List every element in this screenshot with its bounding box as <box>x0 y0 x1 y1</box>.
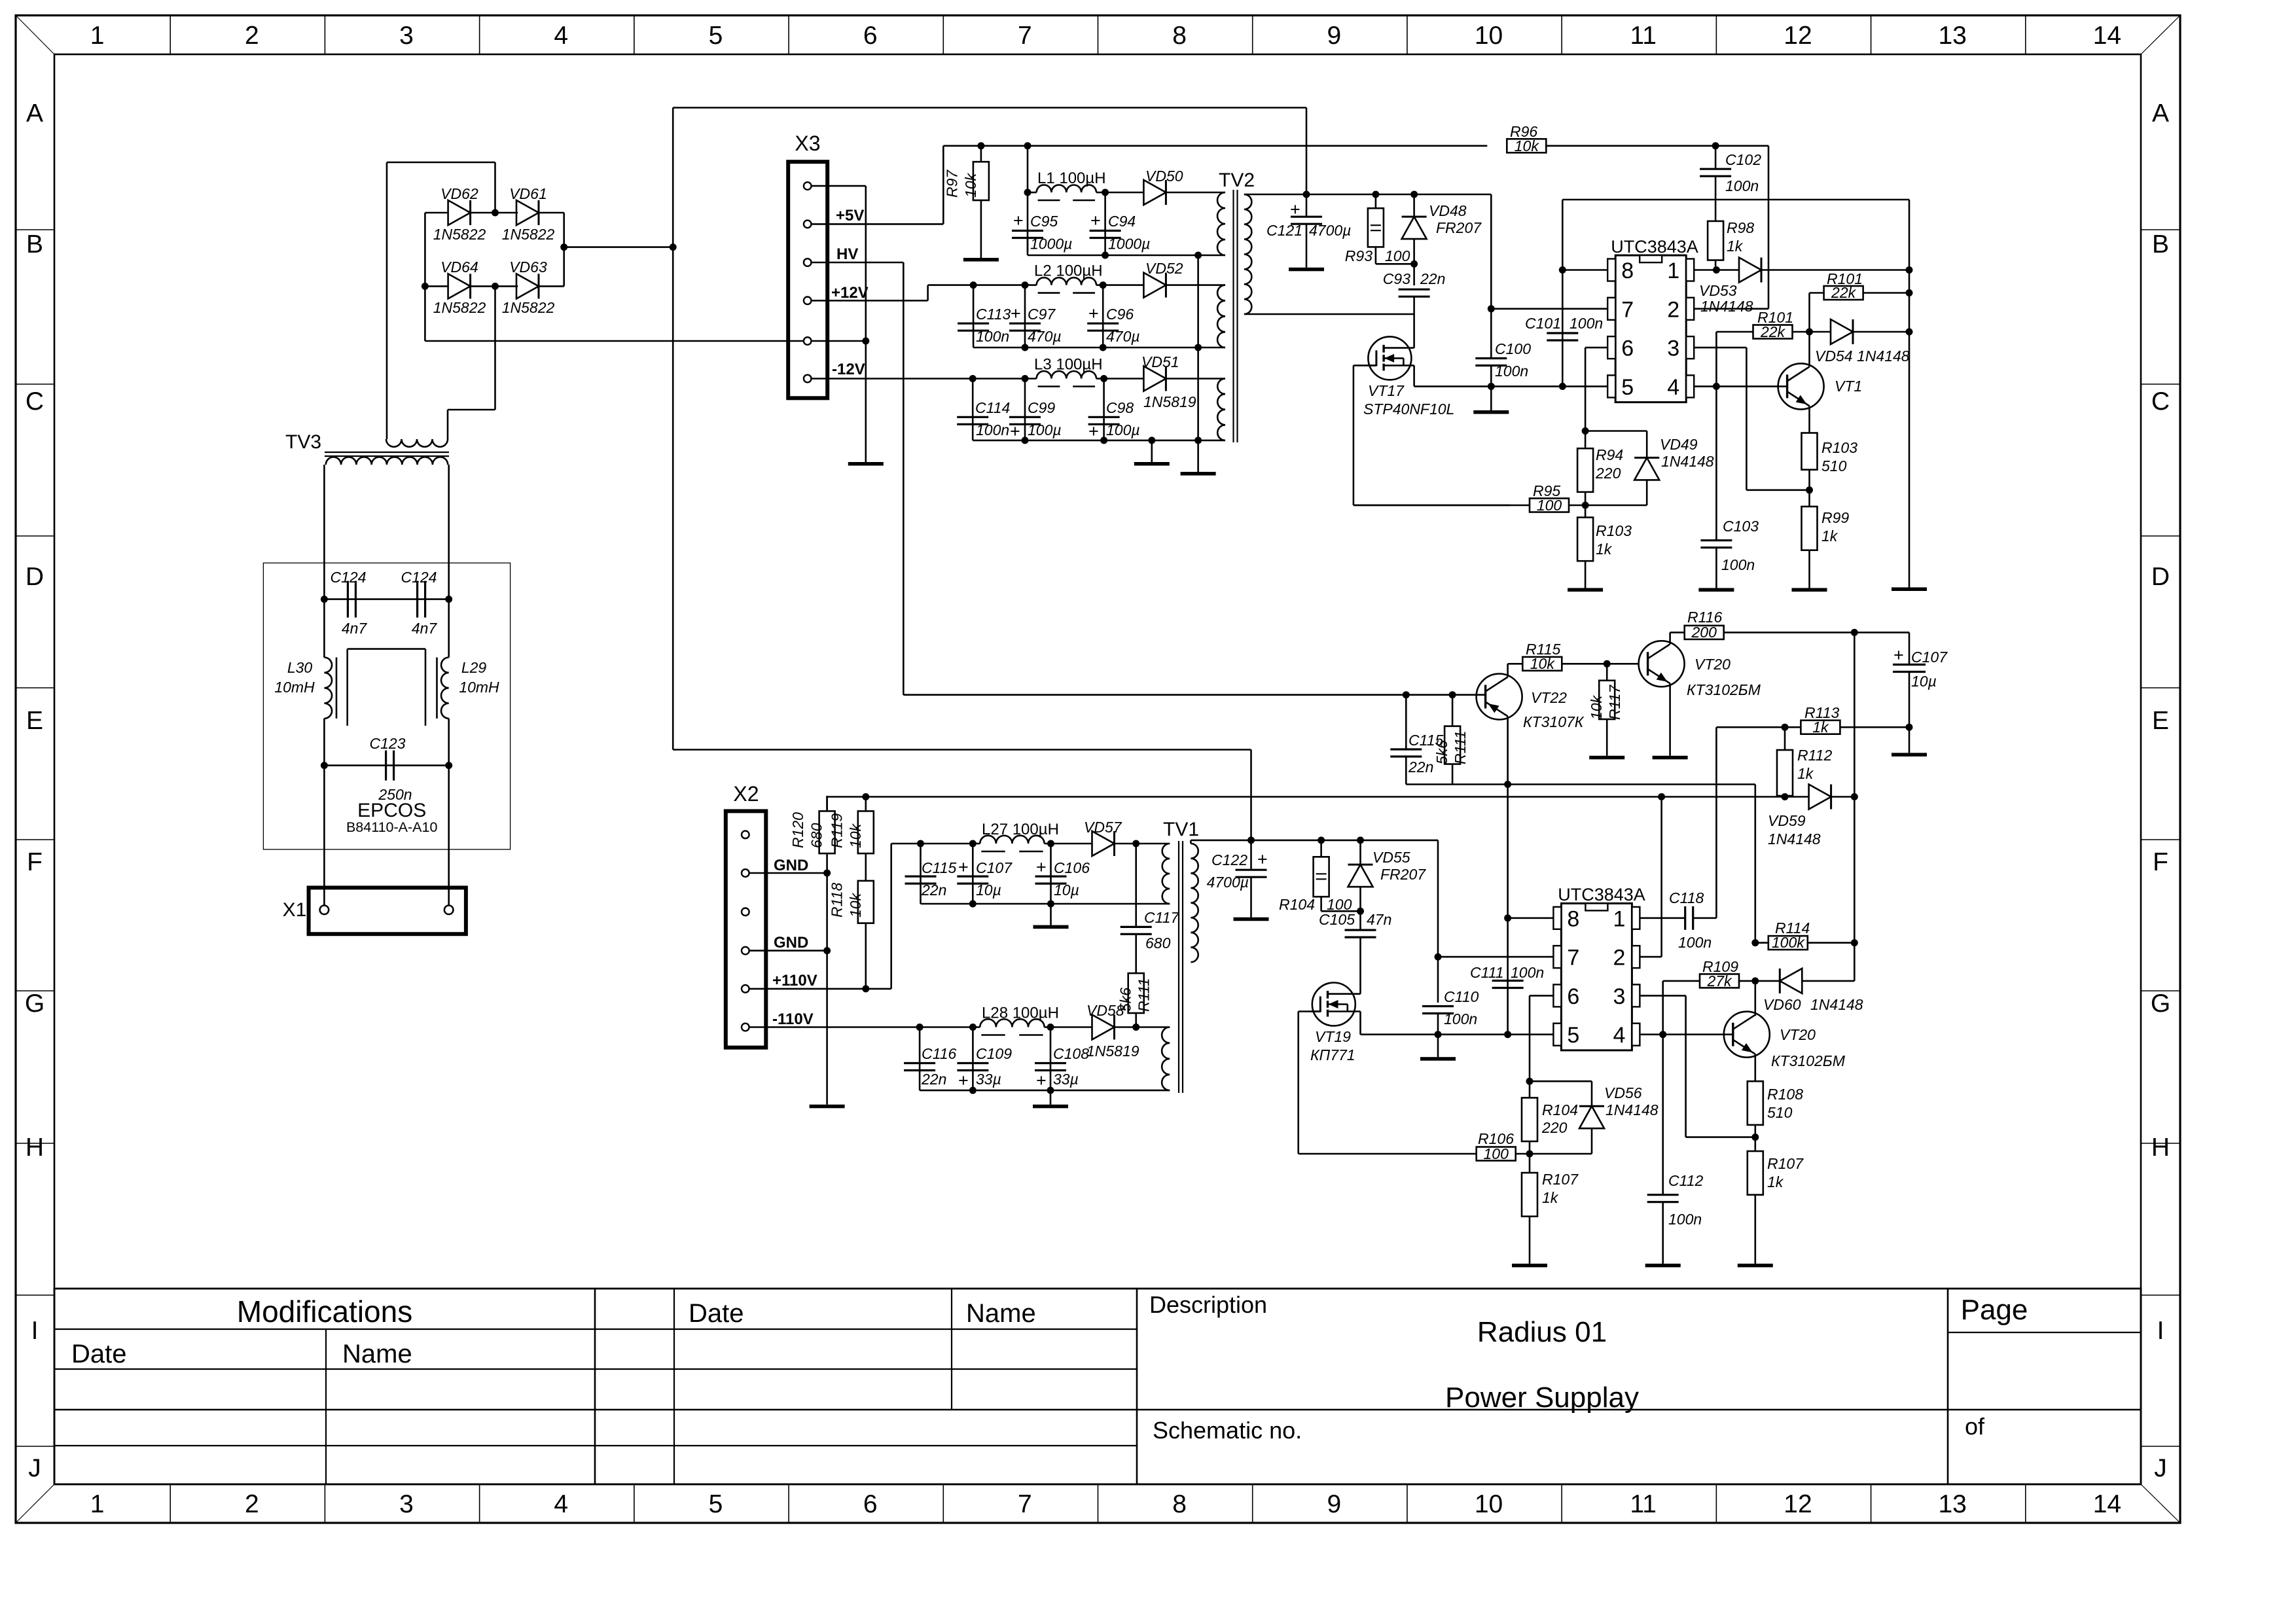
svg-text:+: + <box>1088 304 1099 323</box>
svg-text:14: 14 <box>2093 1490 2121 1518</box>
svg-text:+: + <box>958 1071 969 1090</box>
svg-text:10mH: 10mH <box>459 679 499 696</box>
pin X3 <box>804 182 812 190</box>
svg-text:R117: R117 <box>1606 685 1623 720</box>
wire VT17 source <box>1413 365 1415 386</box>
inductor L28 <box>973 1026 980 1028</box>
ground L3 rail <box>1151 440 1153 462</box>
svg-text:HV: HV <box>836 245 858 263</box>
svg-text:Power Supplay: Power Supplay <box>1445 1382 1639 1414</box>
svg-text:R107: R107 <box>1542 1171 1579 1188</box>
pin X2 <box>742 869 749 877</box>
wire VT20#2 base <box>1724 1033 1733 1035</box>
pin X3 <box>804 375 812 383</box>
ground C107 <box>1892 753 1927 757</box>
node R108 R107 <box>1751 1133 1759 1141</box>
svg-text:C100: C100 <box>1495 340 1531 357</box>
svg-text:5: 5 <box>709 22 723 50</box>
diode VD60 <box>1755 980 1780 982</box>
resistor R103 1k lower-left <box>1585 505 1587 518</box>
wire bridge right edge <box>563 213 565 286</box>
choke coupling box <box>348 648 425 650</box>
wire pin7 from C100 <box>1491 308 1607 310</box>
svg-text:10k: 10k <box>1515 137 1540 154</box>
node VD54 right <box>1906 329 1913 336</box>
svg-text:10µ: 10µ <box>1054 882 1079 899</box>
svg-text:C114: C114 <box>975 399 1010 416</box>
wire +5V to pin2 riser <box>1768 146 1770 309</box>
capacitor C124 right <box>416 581 418 618</box>
capacitor C109 <box>972 1027 974 1091</box>
diode VD64 <box>422 283 429 290</box>
svg-text:1k: 1k <box>1821 527 1839 544</box>
resistor R109 27k <box>1663 980 1700 982</box>
wire R120 top corner <box>826 797 828 811</box>
pin X3 <box>804 221 812 228</box>
svg-text:VD61: VD61 <box>509 185 547 202</box>
node R94 top <box>1582 427 1589 435</box>
node C116 top <box>916 1024 924 1031</box>
svg-text:F: F <box>2153 848 2168 876</box>
winding TV2 primary <box>1244 194 1251 314</box>
svg-text:Date: Date <box>689 1299 744 1328</box>
node C108 bottom <box>1047 1087 1054 1094</box>
node C96 bottom <box>1100 344 1107 351</box>
node pin5 vertical IC2 <box>1504 1031 1511 1038</box>
wire X3 pin1 <box>812 185 866 187</box>
wire L29 to C123 <box>448 719 450 766</box>
svg-text:100µ: 100µ <box>1028 421 1062 438</box>
svg-text:1k: 1k <box>1812 719 1829 736</box>
wire TV2 primary bottom <box>1244 313 1414 315</box>
svg-text:10k: 10k <box>1530 655 1556 672</box>
svg-text:C97: C97 <box>1028 306 1056 323</box>
svg-text:VD53: VD53 <box>1699 282 1737 299</box>
svg-text:2: 2 <box>1613 946 1625 971</box>
svg-text:1N4148: 1N4148 <box>1605 1101 1659 1118</box>
svg-text:H: H <box>2151 1133 2170 1162</box>
svg-text:3: 3 <box>399 1490 414 1518</box>
svg-text:33µ: 33µ <box>976 1071 1001 1088</box>
wire TV3 primary left lead <box>386 162 388 439</box>
svg-text:6: 6 <box>1621 336 1634 361</box>
node C96 top <box>1100 281 1107 289</box>
wire C124 row <box>324 598 448 600</box>
wire feedback vertical 2833 <box>1854 632 1856 981</box>
capacitor C99 <box>1024 379 1026 440</box>
wire pin1 row IC2 <box>1640 918 1685 919</box>
ground C110 <box>1437 1035 1439 1058</box>
wire HV down <box>812 262 904 264</box>
svg-text:VD54: VD54 <box>1815 348 1853 365</box>
node R95 R94 junction <box>1582 502 1589 509</box>
svg-text:C117: C117 <box>1144 909 1179 926</box>
node C100 top <box>1488 305 1495 312</box>
capacitor C118 <box>1684 906 1686 930</box>
svg-text:10µ: 10µ <box>976 882 1001 899</box>
svg-text:L2 100µH: L2 100µH <box>1034 262 1103 280</box>
node C109 top <box>969 1024 977 1031</box>
svg-text:VD55: VD55 <box>1372 849 1410 866</box>
diode VD48 <box>1413 194 1415 217</box>
svg-text:X3: X3 <box>795 132 820 155</box>
svg-text:VD50: VD50 <box>1145 168 1183 185</box>
wire pin3 jog IC2 <box>1640 995 1685 997</box>
wire VT22 collector <box>1507 664 1509 677</box>
diode VD52 <box>1103 284 1143 286</box>
wire pin2 riser <box>1694 308 1768 310</box>
node R111 bottom TV1 <box>1132 1024 1139 1031</box>
connector X2 <box>726 811 766 1047</box>
capacitor C113 <box>973 285 975 348</box>
svg-text:C107: C107 <box>976 859 1013 876</box>
wire L2 row <box>928 284 974 286</box>
node R101 right <box>1906 289 1913 296</box>
wire rail corner down <box>1306 108 1308 195</box>
wire L2 bottom rail <box>973 347 1198 349</box>
svg-text:+: + <box>1290 200 1300 219</box>
svg-text:10µ: 10µ <box>1911 673 1937 690</box>
svg-text:C121: C121 <box>1266 222 1302 239</box>
svg-text:1N5822: 1N5822 <box>433 299 486 316</box>
ground C112 <box>1645 1264 1681 1268</box>
svg-text:100n: 100n <box>1495 363 1528 380</box>
wire GND1 row <box>749 872 827 874</box>
svg-text:L27 100µH: L27 100µH <box>982 821 1059 838</box>
resistor R118 10k <box>858 881 874 923</box>
node gnd stub L3 <box>1148 437 1155 444</box>
wire -12V row <box>812 378 973 380</box>
wire TV1 sec top rail <box>1191 840 1438 842</box>
svg-text:C108: C108 <box>1053 1045 1089 1062</box>
node C123 right <box>445 762 452 769</box>
svg-text:1N4148: 1N4148 <box>1661 453 1714 470</box>
node R115 R117 <box>1604 660 1611 668</box>
svg-text:C122: C122 <box>1211 851 1247 868</box>
node TV2 sec3 bottom <box>1194 437 1202 444</box>
wire VD49 jog <box>1585 430 1647 432</box>
svg-text:L3 100µH: L3 100µH <box>1034 356 1103 374</box>
svg-text:22n: 22n <box>921 1071 946 1088</box>
svg-text:I: I <box>2157 1317 2164 1345</box>
wire +5V rail riser <box>812 223 944 225</box>
resistor R113 1k <box>1801 721 1840 734</box>
svg-text:J: J <box>28 1454 41 1482</box>
wire pin6 down <box>1585 347 1607 349</box>
svg-text:TV3: TV3 <box>285 431 321 453</box>
wire VT22 emitter vertical down <box>1507 785 1509 918</box>
svg-text:VD49: VD49 <box>1660 436 1698 453</box>
connector X3 <box>788 162 827 398</box>
svg-text:VD58: VD58 <box>1086 1002 1124 1019</box>
svg-text:G: G <box>25 990 45 1018</box>
wire L30 upper lead <box>323 599 325 658</box>
svg-text:5: 5 <box>709 1490 723 1518</box>
svg-text:250n: 250n <box>378 786 412 803</box>
inductor L1 <box>1028 192 1037 194</box>
svg-text:+5V: +5V <box>836 207 864 224</box>
svg-text:C112: C112 <box>1668 1172 1703 1189</box>
svg-text:C102: C102 <box>1725 151 1761 168</box>
wire C110 bottom <box>1437 1014 1439 1035</box>
wire R117 to VT20 base <box>1607 663 1639 665</box>
svg-text:+110V: +110V <box>772 972 817 990</box>
node R109 VD60 <box>1751 977 1759 984</box>
svg-text:100n: 100n <box>1721 556 1755 573</box>
wire pin3 jog <box>1694 347 1746 349</box>
node VD55 top <box>1357 836 1364 844</box>
resistor R95 100 <box>1354 505 1510 507</box>
wire VT1 emitter to R103 <box>1808 406 1810 433</box>
node GND2 <box>823 947 831 954</box>
resistor R112 1k <box>1784 727 1786 750</box>
svg-text:10k: 10k <box>847 823 864 848</box>
svg-text:4n7: 4n7 <box>412 620 438 637</box>
svg-text:C106: C106 <box>1054 859 1090 876</box>
svg-text:100n: 100n <box>1668 1211 1702 1228</box>
node R112 bottom <box>1782 793 1789 800</box>
svg-text:VD59: VD59 <box>1768 812 1806 829</box>
diode VD50 <box>1105 192 1144 194</box>
resistor R101 22k upper <box>1810 292 1824 294</box>
resistor R98 <box>1708 221 1723 260</box>
node pin8 vertical IC2 <box>1504 914 1511 921</box>
inductor L29 <box>448 599 450 658</box>
IC U2 UTC3843A <box>1561 903 1632 1050</box>
wire R96 to C102 node <box>1546 145 1768 147</box>
svg-text:+: + <box>1010 421 1020 441</box>
svg-text:R94: R94 <box>1596 446 1623 463</box>
svg-text:Radius 01: Radius 01 <box>1477 1316 1607 1348</box>
wire long rail R120-VD59 <box>827 796 1809 798</box>
svg-text:1N5822: 1N5822 <box>502 299 555 316</box>
svg-text:R119: R119 <box>828 813 845 848</box>
connector X1 <box>309 887 466 934</box>
svg-text:6: 6 <box>863 22 878 50</box>
pin X3 <box>804 297 812 305</box>
node pin4 C112 <box>1659 1031 1666 1038</box>
svg-text:4n7: 4n7 <box>342 620 368 637</box>
wire VT19 source <box>1359 1012 1361 1035</box>
svg-text:G: G <box>2151 990 2170 1018</box>
svg-text:100: 100 <box>1385 247 1410 264</box>
wire TV3 sec right lead <box>448 465 450 599</box>
svg-text:200: 200 <box>1691 624 1717 641</box>
svg-text:33µ: 33µ <box>1053 1071 1079 1088</box>
wire L27 row <box>891 843 921 845</box>
node C94 top <box>1102 189 1109 196</box>
node R116 output <box>1851 629 1858 636</box>
svg-text:C123: C123 <box>370 735 406 752</box>
diode VD55 <box>1359 840 1361 865</box>
svg-text:14: 14 <box>2093 22 2121 50</box>
node C115 top <box>1403 691 1410 698</box>
wire down to X1 pin2 <box>448 766 450 906</box>
node R98 bottom <box>1713 266 1720 274</box>
svg-text:5: 5 <box>1567 1023 1579 1048</box>
wire right feedback vertical <box>1909 270 1910 588</box>
svg-text:R103: R103 <box>1596 522 1632 539</box>
svg-text:FR207: FR207 <box>1380 866 1426 883</box>
node C114 top <box>969 375 977 382</box>
resistor R107 1k left <box>1529 1154 1531 1173</box>
svg-text:VD48: VD48 <box>1429 202 1467 219</box>
wire L3 row <box>973 378 1025 380</box>
svg-text:100n: 100n <box>1725 177 1759 194</box>
resistor R104 220 <box>1529 1081 1531 1097</box>
resistor R93 <box>1375 194 1377 208</box>
svg-text:100n: 100n <box>1678 934 1712 951</box>
ground C100 <box>1490 386 1492 410</box>
svg-text:VD64: VD64 <box>440 259 478 276</box>
wire R113 row <box>1716 726 1801 728</box>
svg-text:STP40NF10L: STP40NF10L <box>1363 401 1454 418</box>
svg-text:8: 8 <box>1172 1490 1187 1518</box>
svg-text:VD60: VD60 <box>1763 996 1801 1013</box>
pin X3 <box>804 259 812 266</box>
ground R103 <box>1568 588 1603 592</box>
svg-text:4: 4 <box>554 22 568 50</box>
svg-text:680: 680 <box>808 823 825 848</box>
svg-text:1: 1 <box>1613 906 1625 931</box>
wire TV3 primary right lead <box>494 286 496 410</box>
wire C102 to R98 <box>1715 176 1717 221</box>
svg-text:of: of <box>1965 1413 1985 1440</box>
resistor R116 200 <box>1670 632 1685 633</box>
wire pin5 row <box>1491 385 1607 387</box>
svg-text:1k: 1k <box>1797 765 1814 782</box>
svg-text:C116: C116 <box>922 1045 956 1062</box>
wire VT22 emitter row <box>1406 783 1755 785</box>
wire VT20 collector <box>1669 632 1671 644</box>
svg-text:TV1: TV1 <box>1163 819 1199 840</box>
svg-text:2: 2 <box>245 1490 259 1518</box>
svg-text:510: 510 <box>1821 457 1847 474</box>
svg-text:КП771: КП771 <box>1310 1046 1355 1063</box>
capacitor C123 <box>385 751 387 781</box>
svg-text:+: + <box>1257 849 1268 869</box>
svg-text:1N4148: 1N4148 <box>1810 996 1863 1013</box>
ground L27 rail <box>1050 904 1052 925</box>
capacitor C115 22n <box>1405 695 1407 749</box>
node C124 right <box>445 596 452 603</box>
node C99 top <box>1022 375 1029 382</box>
capacitor C105 <box>1345 929 1376 931</box>
wire down to X1 pin1 <box>323 766 325 906</box>
svg-text:10: 10 <box>1475 22 1503 50</box>
svg-text:7: 7 <box>1567 946 1579 971</box>
wire GND vertical <box>826 873 828 1105</box>
svg-text:4: 4 <box>554 1490 568 1518</box>
capacitor C114 <box>972 379 974 440</box>
node R120 bottom <box>823 870 831 877</box>
svg-text:VD51: VD51 <box>1141 353 1179 370</box>
node R93 top <box>1372 191 1379 198</box>
ground L28 rail <box>1050 1090 1052 1105</box>
wire L1 riser <box>1027 146 1029 192</box>
svg-text:GND: GND <box>774 857 808 874</box>
svg-text:1000µ: 1000µ <box>1108 236 1150 253</box>
svg-text:R99: R99 <box>1821 509 1849 526</box>
node C100 bottom <box>1488 383 1495 390</box>
svg-text:9: 9 <box>1327 1490 1341 1518</box>
mosfet VT17 STP40NF10L <box>1368 336 1411 380</box>
ground X3 <box>848 462 884 466</box>
svg-text:B84110-A-A10: B84110-A-A10 <box>346 819 437 835</box>
node VD54 left <box>1806 329 1813 336</box>
svg-text:C98: C98 <box>1106 399 1134 416</box>
svg-text:Description: Description <box>1149 1291 1267 1318</box>
ground C121 <box>1289 268 1324 272</box>
svg-text:E: E <box>26 707 43 735</box>
diode VD49 <box>1634 457 1659 480</box>
pin X2 <box>742 947 749 955</box>
node C95 top <box>1024 189 1031 196</box>
svg-text:Name: Name <box>342 1340 412 1368</box>
capacitor C111 <box>1492 980 1524 982</box>
capacitor C121 <box>1306 194 1308 217</box>
node bridge AC right <box>560 243 567 251</box>
wire VT1 base <box>1777 385 1787 387</box>
capacitor C107 lower <box>972 844 974 904</box>
svg-text:VT20: VT20 <box>1695 656 1731 673</box>
row index strip <box>16 229 54 230</box>
resistor R108 510 <box>1748 1081 1763 1125</box>
EPCOS filter box <box>263 563 510 849</box>
column index strip <box>170 16 171 55</box>
svg-text:3: 3 <box>1613 984 1625 1009</box>
capacitor C94 <box>1104 192 1106 255</box>
svg-text:R98: R98 <box>1727 219 1754 236</box>
node C106 bottom <box>1047 901 1054 908</box>
svg-text:C111: C111 <box>1470 964 1504 981</box>
ground C122 <box>1234 918 1269 921</box>
svg-text:3: 3 <box>1667 336 1679 361</box>
svg-text:Page: Page <box>1961 1294 2028 1326</box>
node C109 bottom <box>969 1087 977 1094</box>
svg-text:11: 11 <box>1630 22 1657 50</box>
svg-text:FR207: FR207 <box>1436 219 1482 236</box>
svg-text:R118: R118 <box>828 883 845 918</box>
resistor R97 <box>977 142 984 149</box>
svg-text:1k: 1k <box>1767 1173 1784 1190</box>
svg-text:100n: 100n <box>1444 1010 1477 1027</box>
svg-text:10k: 10k <box>847 892 864 918</box>
svg-text:GND: GND <box>774 934 808 952</box>
wire +5V rail <box>943 145 1487 147</box>
svg-text:1N5822: 1N5822 <box>433 226 486 243</box>
node L1 riser <box>1024 142 1031 149</box>
ground X2 GND <box>810 1105 845 1109</box>
svg-text:E: E <box>2152 707 2169 735</box>
wire pin7 row IC2 <box>1438 956 1553 958</box>
capacitor C95 <box>1027 192 1029 251</box>
wire TV2 gnd vertical <box>1197 255 1199 472</box>
svg-text:R97: R97 <box>943 169 960 198</box>
svg-text:13: 13 <box>1938 22 1966 50</box>
svg-text:C124: C124 <box>401 569 437 586</box>
svg-text:+: + <box>1011 304 1021 323</box>
svg-text:C105: C105 <box>1319 911 1355 928</box>
svg-text:12: 12 <box>1784 1490 1812 1518</box>
svg-text:1k: 1k <box>1727 238 1744 255</box>
diode VD63 <box>495 285 518 287</box>
wire +110V riser <box>890 844 892 989</box>
wire L3 bottom rail <box>973 440 1225 442</box>
wire HV row to VT22 <box>903 694 1484 696</box>
capacitor C103 <box>1715 386 1717 540</box>
svg-text:R120: R120 <box>789 812 806 848</box>
